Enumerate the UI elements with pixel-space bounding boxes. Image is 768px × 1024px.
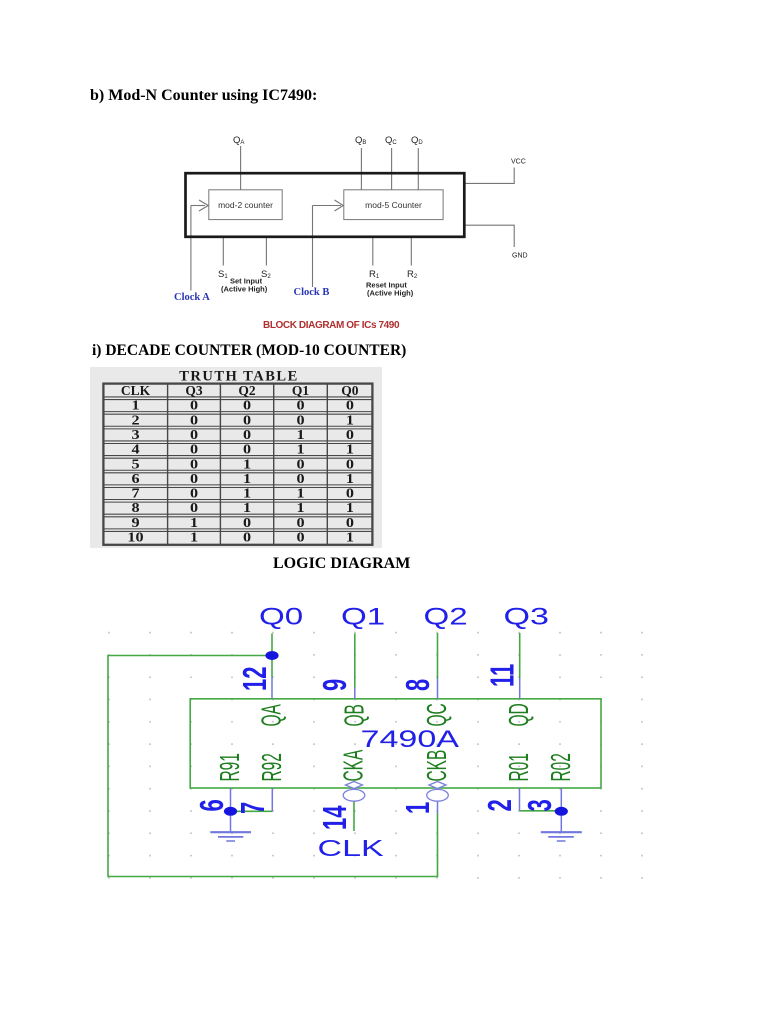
svg-text:1: 1 [190, 516, 198, 530]
svg-text:QB: QB [339, 704, 370, 726]
svg-text:(Active High): (Active High) [367, 289, 414, 298]
svg-text:0: 0 [190, 472, 198, 486]
svg-text:0: 0 [190, 428, 198, 442]
svg-text:1: 1 [243, 487, 251, 501]
svg-text:R02: R02 [545, 753, 576, 781]
svg-text:0: 0 [190, 457, 198, 471]
svg-text:mod-2 counter: mod-2 counter [218, 200, 273, 210]
svg-text:7: 7 [131, 487, 140, 501]
svg-text:0: 0 [243, 443, 251, 457]
svg-text:Q0: Q0 [341, 383, 359, 398]
svg-text:R2: R2 [407, 269, 418, 280]
svg-text:10: 10 [127, 531, 143, 545]
svg-text:0: 0 [243, 413, 251, 427]
svg-text:QB: QB [355, 135, 366, 146]
svg-text:R01: R01 [503, 753, 534, 781]
svg-text:QA: QA [233, 135, 244, 146]
svg-text:1: 1 [296, 487, 304, 501]
svg-text:3: 3 [522, 799, 558, 811]
svg-text:0: 0 [296, 531, 304, 545]
svg-text:1: 1 [296, 428, 304, 442]
svg-text:7: 7 [235, 802, 271, 814]
svg-text:0: 0 [243, 531, 251, 545]
svg-text:1: 1 [346, 443, 354, 457]
svg-text:0: 0 [346, 457, 354, 471]
svg-text:(Active High): (Active High) [221, 285, 268, 294]
svg-text:4: 4 [131, 443, 140, 457]
svg-text:1: 1 [243, 501, 251, 515]
svg-text:Q1: Q1 [341, 604, 385, 631]
svg-text:1: 1 [346, 413, 354, 427]
svg-text:0: 0 [346, 428, 354, 442]
svg-text:R1: R1 [369, 269, 380, 280]
svg-text:2: 2 [482, 799, 518, 811]
svg-text:S1: S1 [218, 269, 228, 280]
svg-text:CKA: CKA [338, 750, 369, 782]
svg-text:CLK: CLK [121, 383, 151, 398]
svg-text:Q3: Q3 [504, 603, 549, 630]
svg-text:0: 0 [243, 399, 251, 413]
svg-text:6: 6 [131, 472, 140, 486]
svg-text:Clock B: Clock B [294, 287, 330, 298]
svg-text:Q0: Q0 [259, 604, 303, 631]
svg-text:0: 0 [296, 413, 304, 427]
svg-text:S2: S2 [261, 269, 271, 280]
svg-text:0: 0 [346, 516, 354, 530]
svg-text:1: 1 [400, 802, 436, 814]
svg-text:QD: QD [411, 135, 423, 146]
svg-text:0: 0 [296, 399, 304, 413]
svg-text:QC: QC [385, 135, 397, 146]
svg-text:mod-5 Counter: mod-5 Counter [365, 200, 422, 210]
svg-text:0: 0 [190, 399, 198, 413]
svg-text:QA: QA [256, 704, 287, 726]
svg-text:0: 0 [190, 443, 198, 457]
svg-text:1: 1 [131, 399, 139, 413]
svg-text:Q1: Q1 [292, 383, 310, 398]
svg-text:14: 14 [317, 805, 353, 830]
svg-text:Q3: Q3 [185, 383, 203, 398]
svg-text:1: 1 [346, 531, 354, 545]
svg-text:1: 1 [296, 443, 304, 457]
svg-text:5: 5 [131, 457, 139, 471]
svg-text:VCC: VCC [511, 159, 526, 166]
svg-text:Clock A: Clock A [174, 292, 210, 303]
svg-text:0: 0 [296, 516, 304, 530]
svg-text:QC: QC [421, 703, 452, 726]
svg-text:0: 0 [346, 399, 354, 413]
svg-text:1: 1 [243, 457, 251, 471]
svg-text:1: 1 [243, 472, 251, 486]
svg-text:8: 8 [400, 679, 436, 691]
svg-text:R92: R92 [256, 753, 287, 781]
svg-text:2: 2 [131, 413, 139, 427]
svg-text:0: 0 [346, 487, 354, 501]
svg-text:Q2: Q2 [424, 604, 468, 631]
svg-text:0: 0 [190, 501, 198, 515]
svg-text:R91: R91 [214, 753, 245, 781]
svg-text:QD: QD [503, 703, 534, 726]
svg-text:9: 9 [131, 516, 139, 530]
svg-text:6: 6 [194, 799, 230, 811]
svg-text:CKB: CKB [421, 750, 452, 782]
svg-text:3: 3 [131, 428, 139, 442]
svg-text:11: 11 [484, 664, 520, 687]
svg-text:0: 0 [243, 428, 251, 442]
svg-text:1: 1 [346, 501, 354, 515]
svg-text:8: 8 [131, 501, 139, 515]
svg-text:1: 1 [190, 531, 198, 545]
svg-text:1: 1 [296, 501, 304, 515]
svg-text:CLK: CLK [318, 836, 385, 861]
svg-text:9: 9 [317, 679, 353, 691]
svg-text:0: 0 [190, 487, 198, 501]
svg-text:0: 0 [243, 516, 251, 530]
svg-text:0: 0 [190, 413, 198, 427]
svg-text:1: 1 [346, 472, 354, 486]
svg-text:0: 0 [296, 457, 304, 471]
svg-text:GND: GND [512, 253, 528, 260]
svg-text:12: 12 [237, 667, 273, 691]
svg-text:Q2: Q2 [238, 383, 256, 398]
svg-text:0: 0 [296, 472, 304, 486]
